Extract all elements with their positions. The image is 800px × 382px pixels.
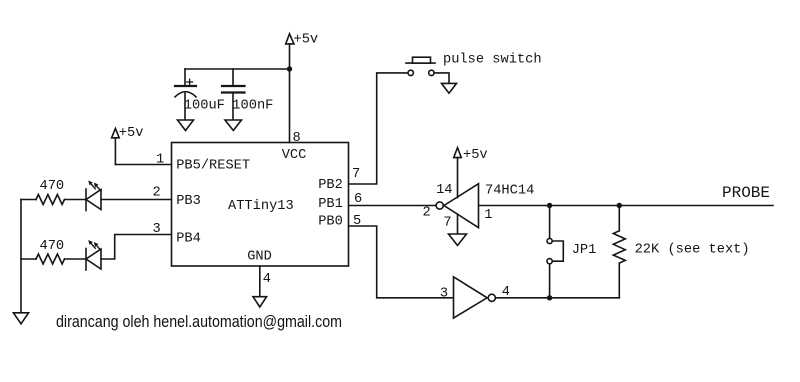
node junction U1B-JP1 — [547, 295, 552, 300]
svg-text:4: 4 — [263, 272, 271, 287]
pin 3 label (U1B in) — [440, 286, 448, 301]
pin name GND — [247, 250, 272, 265]
wire PB0 to inverter U1B — [349, 226, 454, 298]
ground (LED rail) — [13, 313, 28, 324]
capacitor C2 100nF — [222, 69, 273, 120]
svg-text:7: 7 — [443, 216, 451, 231]
svg-text:14: 14 — [436, 183, 452, 198]
svg-text:3: 3 — [440, 286, 448, 301]
power +5v P2 (left, reset pull-up) — [112, 126, 144, 141]
svg-text:2: 2 — [153, 186, 161, 201]
ground (switch) — [442, 83, 457, 93]
pin name PB4 — [176, 231, 201, 246]
node junction VCC — [287, 66, 292, 71]
svg-text:ATTiny13: ATTiny13 — [228, 199, 294, 214]
switch S1 pulse — [406, 52, 542, 75]
svg-text:470: 470 — [40, 179, 65, 194]
pin 6 label — [354, 192, 362, 207]
pin name PB0 — [318, 214, 343, 229]
pin 3 label — [153, 222, 161, 237]
svg-text:PB5/RESET: PB5/RESET — [176, 158, 250, 173]
op-amp U1B 74HC14 inverter — [454, 277, 496, 318]
pin name PB1 — [318, 197, 343, 212]
svg-text:JP1: JP1 — [572, 243, 597, 258]
node junction probe-R3 — [617, 203, 622, 208]
svg-text:1: 1 — [156, 152, 164, 167]
svg-text:100nF: 100nF — [232, 98, 273, 113]
resistor R2 470 — [21, 239, 86, 264]
pin 2 label — [153, 186, 161, 201]
svg-text:7: 7 — [352, 167, 360, 182]
jumper JP1 — [547, 206, 596, 298]
wire LED ground rail — [20, 200, 22, 313]
svg-text:2: 2 — [423, 206, 431, 221]
pin 5 label — [353, 214, 361, 229]
LED D2 — [86, 240, 101, 270]
svg-text:PB0: PB0 — [318, 214, 343, 229]
wire U1A input / probe net — [479, 205, 774, 207]
node junction probe-JP1 — [547, 203, 552, 208]
ground (under C2) — [225, 120, 242, 131]
pin name VCC — [282, 148, 307, 163]
op-amp U1A 74HC14 inverter — [436, 183, 534, 227]
svg-text:GND: GND — [247, 250, 272, 265]
svg-text:+5v: +5v — [463, 148, 488, 163]
wire PB1 to inverter output — [349, 205, 437, 207]
wire U1 pin7 to ground — [457, 214, 459, 234]
wire reset to pin1 — [115, 138, 171, 165]
svg-text:PB3: PB3 — [176, 194, 201, 209]
wire PB2 to switch — [349, 73, 409, 184]
svg-text:8: 8 — [293, 131, 301, 146]
pin 1 label (U1A in) — [484, 208, 492, 223]
credit text — [56, 313, 342, 331]
wire D1 to PB3 — [101, 199, 172, 201]
ground (under IC pin4) — [253, 297, 267, 307]
svg-text:6: 6 — [354, 192, 362, 207]
wire U1B output net — [495, 297, 619, 299]
svg-text:VCC: VCC — [282, 148, 307, 163]
pin 14 label — [436, 183, 452, 198]
svg-text:74HC14: 74HC14 — [485, 183, 534, 198]
pin name PB3 — [176, 194, 201, 209]
svg-text:+5v: +5v — [119, 126, 144, 141]
power +5v P3 (U1 pin14) — [454, 148, 488, 198]
pin 4 label — [263, 272, 271, 287]
wire GND pin 4 — [259, 266, 261, 297]
pin name PB5/RESET — [176, 158, 250, 173]
ground (U1 pin7) — [449, 234, 467, 246]
wire switch to ground — [434, 73, 449, 84]
svg-text:pulse switch: pulse switch — [443, 52, 542, 67]
pin 8 label — [293, 131, 301, 146]
resistor R1 470 — [21, 179, 86, 205]
svg-text:100uF: 100uF — [184, 98, 225, 113]
pin 4 label (U1B out) — [502, 285, 510, 300]
svg-text:470: 470 — [40, 239, 65, 254]
IC U2 ATTiny13 box — [172, 143, 349, 267]
wire cap rail — [185, 68, 290, 70]
pin 7 label — [352, 167, 360, 182]
pin 7 label (U1A gnd) — [443, 216, 451, 231]
svg-text:PROBE: PROBE — [722, 184, 770, 202]
pin 2 label (U1A out) — [423, 206, 431, 221]
svg-text:dirancang oleh henel.automatio: dirancang oleh henel.automation@gmail.co… — [56, 313, 342, 331]
svg-text:PB1: PB1 — [318, 197, 343, 212]
wire VCC feed — [289, 69, 291, 143]
pin 1 label — [156, 152, 164, 167]
svg-text:PB2: PB2 — [318, 178, 343, 193]
power +5v P1 (top) — [286, 33, 318, 69]
pin name PB2 — [318, 178, 343, 193]
resistor R3 22K — [613, 206, 749, 298]
ground (under C1) — [178, 120, 194, 131]
svg-text:1: 1 — [484, 208, 492, 223]
svg-text:PB4: PB4 — [176, 231, 201, 246]
LED D1 — [86, 181, 101, 211]
wire D2 to PB4 — [101, 235, 172, 260]
svg-text:22K (see text): 22K (see text) — [635, 243, 750, 258]
svg-text:+5v: +5v — [294, 33, 319, 48]
net label PROBE — [722, 184, 770, 202]
capacitor C1 100uF — [175, 69, 225, 120]
